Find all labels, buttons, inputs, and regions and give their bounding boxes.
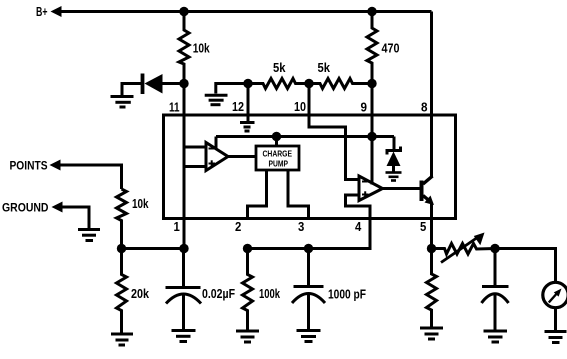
wire pin 11 / pin 1 vertical [183, 84, 186, 249]
wire GROUND to ground symbol [61, 207, 89, 228]
ground (pin 12 internal) [240, 121, 255, 124]
op-amp U1B output buffer [359, 176, 383, 201]
wire pin 10 to op-amp U1B inverting input [309, 84, 359, 180]
node B+/470 [367, 7, 376, 16]
svg-text:1: 1 [174, 220, 180, 234]
svg-text:PUMP: PUMP [269, 158, 289, 168]
wire to meter [495, 249, 556, 284]
wire pin 8 drop from B+ rail [430, 12, 433, 178]
ground (R7) [236, 330, 259, 333]
node input divider [117, 244, 126, 253]
resistor R8 (pin 5 load) [427, 249, 437, 327]
wire pin 4 internal to op-amp U1B + input [346, 195, 371, 219]
node pin 9 internal [367, 132, 376, 141]
node pot/C3 [490, 244, 499, 253]
wire charge pump output to pin 2 [248, 170, 267, 219]
svg-text:4: 4 [355, 220, 361, 234]
svg-text:11: 11 [169, 101, 180, 115]
node pin 3 [304, 244, 313, 253]
node B+/R1 [179, 7, 188, 16]
svg-text:9: 9 [361, 101, 368, 115]
svg-text:5k: 5k [318, 60, 331, 75]
resistor R6 20k [117, 249, 127, 333]
wire divider to pin 1 [122, 247, 185, 250]
node charge pump top [272, 132, 281, 141]
wire pin 9 drop [371, 84, 374, 137]
capacitor C2 1000pF [307, 249, 310, 287]
wire U1A output [228, 155, 256, 158]
resistor R3 5k (pin10-pin9) [309, 79, 372, 89]
wire U1B output to Q1 base [383, 187, 420, 190]
ground (meter) [545, 330, 567, 333]
svg-text:5: 5 [420, 220, 426, 234]
resistor R5 10k (left) [117, 189, 127, 249]
terminal arrow POINTS [50, 160, 61, 171]
ground (R8) [420, 327, 443, 330]
node pin 5 [427, 244, 436, 253]
node pin 1 [179, 244, 188, 253]
potentiometer (calibrate) [432, 244, 496, 255]
wire pin 5 (emitter) [430, 203, 433, 249]
ground (C2) [297, 329, 321, 332]
svg-text:10k: 10k [193, 40, 211, 55]
wire bus pins 2-3-4 [248, 219, 371, 249]
ground (zener) [386, 171, 402, 174]
svg-text:10: 10 [294, 100, 306, 114]
terminal arrow B+ [51, 6, 62, 17]
ground (pin 12 bias) [216, 84, 248, 94]
svg-text:20k: 20k [131, 286, 150, 301]
op-amp U1A input comparator [184, 146, 206, 149]
svg-text:CHARGE: CHARGE [263, 149, 293, 159]
resistor R4 470 [367, 12, 377, 84]
node pin 10 [304, 79, 313, 88]
zener diode (internal) [393, 137, 396, 151]
resistor R2 5k (pin12-pin10) [248, 79, 309, 89]
capacitor C3 (filter) [494, 249, 497, 287]
resistor R1 10k (top) [179, 12, 189, 84]
wire U1A feedback drop [215, 137, 218, 150]
terminal arrow GROUND [52, 202, 63, 213]
meter M1 [543, 282, 567, 307]
wire POINTS to R5 [59, 165, 122, 189]
ground (diode cathode) [122, 84, 143, 96]
diode D1 [141, 74, 145, 95]
resistor R7 100k [243, 249, 253, 330]
svg-text:5k: 5k [273, 60, 286, 75]
ground (C3) [484, 330, 508, 333]
node diode/pin11 [179, 79, 188, 88]
IC box LM2917 [164, 115, 456, 219]
wire B+ rail [60, 10, 432, 13]
ground (20k) [111, 333, 133, 336]
capacitor C1 0.02uF [182, 249, 185, 288]
transistor Q1 [420, 181, 424, 202]
svg-text:3: 3 [298, 220, 304, 234]
node pin 2 [243, 244, 252, 253]
node pin 12 [243, 79, 252, 88]
node pin 9 [367, 79, 376, 88]
charge pump box [256, 146, 299, 170]
svg-text:1000 pF: 1000 pF [328, 287, 366, 302]
svg-text:B+: B+ [36, 5, 48, 19]
svg-text:0.02µF: 0.02µF [202, 286, 235, 301]
ground (GROUND terminal) [78, 228, 100, 231]
svg-text:8: 8 [421, 101, 428, 115]
svg-text:12: 12 [232, 100, 244, 114]
wire pin 12 drop [247, 84, 250, 122]
svg-text:GROUND: GROUND [2, 200, 49, 214]
wire charge pump output to pin 3 [288, 170, 309, 219]
svg-text:470: 470 [382, 41, 400, 56]
svg-text:2: 2 [235, 220, 241, 234]
wire charge pump bus to U1B [371, 137, 374, 185]
svg-text:10k: 10k [132, 196, 149, 211]
ground (C1) [172, 329, 196, 332]
svg-text:100k: 100k [259, 286, 281, 301]
svg-text:POINTS: POINTS [10, 159, 48, 173]
wire internal bus (charge pump line) [216, 135, 394, 138]
